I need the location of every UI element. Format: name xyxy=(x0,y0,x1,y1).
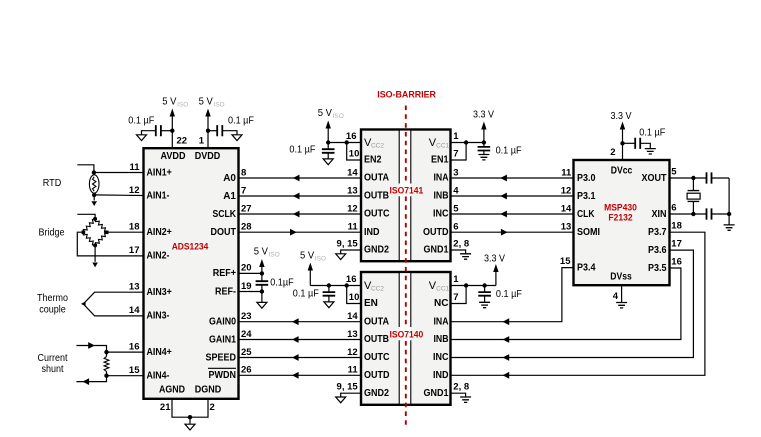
svg-text:PWDN: PWDN xyxy=(209,370,237,381)
wire P3.6 to ISO7140 INC xyxy=(451,250,694,357)
svg-text:OUTA: OUTA xyxy=(364,173,389,184)
svg-text:5 V: 5 V xyxy=(199,96,213,108)
svg-text:ADS1234: ADS1234 xyxy=(172,242,209,252)
svg-text:6: 6 xyxy=(453,222,458,233)
wire SPEED/OUTC xyxy=(239,357,362,359)
svg-text:14: 14 xyxy=(347,311,358,322)
svg-text:GAIN0: GAIN0 xyxy=(209,317,236,328)
svg-text:2, 8: 2, 8 xyxy=(453,382,469,393)
svg-text:5 V: 5 V xyxy=(318,107,332,119)
wire A1/OUTB xyxy=(239,195,362,197)
svg-text:13: 13 xyxy=(561,222,572,233)
svg-text:NC: NC xyxy=(434,298,448,309)
svg-text:ISO7140: ISO7140 xyxy=(390,329,424,339)
wire shunt bottom xyxy=(76,372,106,382)
svg-text:14: 14 xyxy=(129,305,140,316)
svg-text:16: 16 xyxy=(671,257,682,268)
wire P3.4 to ISO7140 INA xyxy=(451,268,574,322)
svg-text:OUTD: OUTD xyxy=(364,370,390,381)
svg-text:7: 7 xyxy=(453,148,458,159)
svg-text:16: 16 xyxy=(346,274,357,285)
arrow toward ISO7140 (INB) xyxy=(503,336,510,343)
svg-text:P3.6: P3.6 xyxy=(648,245,667,256)
svg-text:16: 16 xyxy=(346,131,357,142)
svg-text:INA: INA xyxy=(434,173,449,184)
svg-text:5: 5 xyxy=(453,203,459,214)
junction VCC1/NC node xyxy=(464,283,468,287)
svg-text:0.1 µF: 0.1 µF xyxy=(496,289,522,300)
svg-text:7: 7 xyxy=(241,185,246,196)
svg-text:7: 7 xyxy=(453,292,458,303)
RTD sensor element xyxy=(89,175,99,193)
wire P3.7 to ISO7140 IND xyxy=(451,232,705,375)
wire VCC2 pin 16 xyxy=(328,142,361,144)
svg-text:OUTC: OUTC xyxy=(364,209,390,220)
wire DVDD pin 1 xyxy=(207,131,209,149)
svg-text:AIN1+: AIN1+ xyxy=(147,167,172,178)
wire VCC2 pin 16 (ISO7140) xyxy=(310,285,361,287)
isolation barrier channel of ISO7140 xyxy=(400,273,410,403)
svg-text:shunt: shunt xyxy=(42,364,64,375)
svg-text:5: 5 xyxy=(671,167,677,178)
svg-text:1: 1 xyxy=(453,131,459,142)
svg-text:GND2: GND2 xyxy=(364,388,389,399)
capacitor 0.1uF at ISO7140 VCC1 xyxy=(484,286,486,293)
wire AGND-DGND to ground xyxy=(172,399,208,418)
power 3.3V arrow (MSP430) xyxy=(620,122,625,130)
svg-text:GND1: GND1 xyxy=(424,245,449,256)
svg-text:ISO: ISO xyxy=(315,255,326,262)
junction VCC2/EN2 node xyxy=(345,140,349,144)
arrow toward ISO7141 (INA/P3.0) xyxy=(500,175,507,182)
wire XIN cap to rail xyxy=(712,213,730,215)
svg-text:5 V: 5 V xyxy=(300,250,314,262)
isolation barrier inner lines of ISO7141 xyxy=(398,131,400,184)
wire AIN4- xyxy=(107,375,144,377)
svg-text:9, 15: 9, 15 xyxy=(337,382,359,393)
svg-text:10: 10 xyxy=(349,148,360,159)
svg-text:P3.4: P3.4 xyxy=(577,262,596,273)
isolation barrier inner lines of ISO7140 xyxy=(398,273,400,327)
wire INB/P3.1 xyxy=(451,195,574,197)
svg-text:11: 11 xyxy=(348,365,359,376)
junction RTD top / AIN1+ xyxy=(92,170,96,174)
svg-text:CC2: CC2 xyxy=(371,286,384,293)
wire GAIN0/OUTA xyxy=(239,321,362,323)
ground (IEC) MSP430 DVss xyxy=(616,303,627,308)
arrow toward ISO7141 (DOUT/IND) xyxy=(290,229,297,236)
junction AVDD node xyxy=(170,129,174,133)
svg-text:25: 25 xyxy=(241,347,252,358)
wire GND1 pins 2,8 (ISO7140) xyxy=(451,393,466,397)
ground (iso) at DVDD cap xyxy=(232,135,242,141)
svg-text:DVDD: DVDD xyxy=(195,151,221,162)
capacitor crystal load (XIN) xyxy=(707,208,712,219)
svg-text:12: 12 xyxy=(561,185,572,196)
wire XOUT cap to rail xyxy=(712,177,730,179)
svg-text:15: 15 xyxy=(560,256,571,267)
svg-text:AIN2+: AIN2+ xyxy=(147,227,172,238)
ground (iso) at AVDD cap xyxy=(137,135,147,141)
capacitor 0.1uF at MSP430 DVcc xyxy=(623,142,636,144)
power 5V_ISO arrow (ISO7141 VCC2) xyxy=(326,121,331,129)
svg-text:EN1: EN1 xyxy=(431,155,449,166)
wire REF+ xyxy=(239,272,262,274)
svg-text:AIN4+: AIN4+ xyxy=(147,347,172,358)
arrow toward ADS1234 (SCLK/OUTC) xyxy=(293,211,300,218)
wire P3.5 to ISO7140 INB xyxy=(451,268,681,340)
wire GND2 pins 9,15 (ISO7140) xyxy=(341,393,361,397)
svg-text:INB: INB xyxy=(434,191,449,202)
svg-text:EN2: EN2 xyxy=(364,155,382,166)
wire INA/P3.0 xyxy=(451,177,574,179)
arrow toward ADS1234 (A1/OUTB) xyxy=(293,193,300,200)
crystal Y1 xyxy=(692,178,694,191)
svg-text:A0: A0 xyxy=(223,173,236,184)
svg-text:DOUT: DOUT xyxy=(211,227,237,238)
arrow toward ISO7140 (IND) xyxy=(503,372,510,379)
wire AIN1- xyxy=(94,194,143,197)
svg-text:1: 1 xyxy=(199,136,205,147)
svg-text:SOMI: SOMI xyxy=(577,227,600,238)
wire VCC1 pin 1 (ISO7140) xyxy=(451,285,496,287)
ground (IEC) ISO7140 GND1 xyxy=(460,397,471,402)
junction rail/XIN xyxy=(727,212,731,216)
arrow thermocouple junction xyxy=(81,301,86,306)
svg-text:OUTB: OUTB xyxy=(364,191,389,202)
svg-text:0.1 µF: 0.1 µF xyxy=(289,145,315,156)
svg-text:15: 15 xyxy=(129,365,140,376)
svg-text:ISO: ISO xyxy=(269,251,280,258)
wire AIN4+ xyxy=(107,351,144,353)
svg-text:3.3 V: 3.3 V xyxy=(473,110,494,121)
svg-text:ISO: ISO xyxy=(213,101,224,108)
svg-text:17: 17 xyxy=(671,239,682,250)
svg-text:13: 13 xyxy=(347,185,358,196)
svg-text:4: 4 xyxy=(613,291,619,302)
svg-text:11: 11 xyxy=(129,162,140,173)
capacitor 0.1uF at ISO7140 VCC2 xyxy=(328,286,330,293)
svg-text:5 V: 5 V xyxy=(162,96,176,108)
svg-text:IND: IND xyxy=(364,227,380,238)
capacitor crystal load (XOUT) xyxy=(707,172,712,183)
svg-text:21: 21 xyxy=(160,402,171,413)
ground (IEC) at DVcc cap xyxy=(645,149,656,154)
arrow bridge return current xyxy=(92,263,98,268)
svg-text:INC: INC xyxy=(433,209,449,220)
svg-text:AGND: AGND xyxy=(159,385,185,396)
svg-text:AIN4-: AIN4- xyxy=(147,370,170,381)
junction bridge top vertex xyxy=(93,217,97,221)
power 3.3V arrow (ISO7141) xyxy=(481,122,486,130)
power 5V_ISO arrow (AVDD) xyxy=(170,109,175,117)
svg-text:14: 14 xyxy=(561,203,572,214)
arrow shunt current out xyxy=(83,378,90,385)
svg-text:3.3 V: 3.3 V xyxy=(484,254,505,265)
svg-text:19: 19 xyxy=(241,281,252,292)
svg-text:IND: IND xyxy=(433,370,449,381)
wire XIN xyxy=(670,213,707,215)
svg-text:26: 26 xyxy=(241,365,252,376)
wire AIN2- xyxy=(77,232,143,256)
svg-text:DVcc: DVcc xyxy=(611,166,633,177)
svg-text:Bridge: Bridge xyxy=(39,228,65,239)
svg-text:13: 13 xyxy=(347,329,358,340)
svg-text:GAIN1: GAIN1 xyxy=(209,334,236,345)
junction bridge bottom vertex xyxy=(93,243,97,247)
arrow toward ADS1234 (GAIN0/OUTA) xyxy=(292,318,299,325)
junction shunt bottom / AIN4- xyxy=(104,374,108,378)
wire OUTD/SOMI xyxy=(451,231,574,233)
svg-text:CC1: CC1 xyxy=(436,286,449,293)
wire VCC1 pin 1 xyxy=(451,142,484,144)
arrow shunt current in xyxy=(88,342,95,349)
isolator ISO7141 body xyxy=(361,130,451,262)
svg-text:10: 10 xyxy=(349,292,360,303)
wire DOUT/IND xyxy=(239,231,362,233)
svg-text:28: 28 xyxy=(241,222,252,233)
junction VCC1/EN1 node xyxy=(464,140,468,144)
wire crystal rail to ground xyxy=(728,178,730,225)
wire SCLK/OUTC xyxy=(239,213,362,215)
wire RTD excitation xyxy=(77,165,94,173)
isolation barrier channel of ISO7141 xyxy=(400,131,410,260)
svg-text:2, 8: 2, 8 xyxy=(453,238,469,249)
arrow toward ISO7140 (INA) xyxy=(503,318,510,325)
svg-text:A1: A1 xyxy=(223,191,236,202)
wire RTD return xyxy=(93,195,95,201)
svg-text:F2132: F2132 xyxy=(608,213,632,223)
wire DVcc pin 2 xyxy=(622,143,624,160)
arrow RTD return current xyxy=(91,201,97,206)
bridge sensor (4 resistor arms) xyxy=(83,219,95,232)
junction XOUT/crystal xyxy=(691,176,695,180)
svg-text:20: 20 xyxy=(241,263,252,274)
arrow toward ADS1234 (GAIN1/OUTB) xyxy=(292,336,299,343)
svg-text:ISO-BARRIER: ISO-BARRIER xyxy=(377,90,436,101)
ground (iso) ISO7140 GND2 xyxy=(336,397,346,403)
ground (IEC) at ISO7140 VCC1 cap xyxy=(479,302,490,307)
svg-text:14: 14 xyxy=(347,167,358,178)
svg-text:AIN2-: AIN2- xyxy=(147,251,170,262)
svg-text:2: 2 xyxy=(210,402,215,413)
arrow toward ISO7141 (INB/P3.1) xyxy=(500,193,507,200)
wire AIN2+ xyxy=(107,231,143,233)
ground (iso) below REF- xyxy=(257,302,267,308)
ground (IEC) ISO7141 GND1 xyxy=(460,254,471,259)
svg-text:6: 6 xyxy=(671,203,676,214)
svg-text:CC2: CC2 xyxy=(371,143,384,150)
resistor shunt xyxy=(104,357,109,372)
svg-text:AIN3-: AIN3- xyxy=(147,311,170,322)
svg-text:0.1µF: 0.1µF xyxy=(270,277,294,288)
power 5V_ISO arrow (DVDD) xyxy=(205,109,210,117)
svg-text:XIN: XIN xyxy=(652,209,667,220)
svg-text:9, 15: 9, 15 xyxy=(337,238,359,249)
wire AVDD pin 22 xyxy=(171,131,173,149)
svg-text:AIN3+: AIN3+ xyxy=(147,287,172,298)
svg-text:GND1: GND1 xyxy=(424,388,449,399)
wire INC/CLK xyxy=(451,213,574,215)
arrow toward ADS1234 (SPEED/OUTC) xyxy=(292,354,299,361)
junction RTD bottom / AIN1- xyxy=(92,193,96,197)
wire bridge return xyxy=(94,245,96,261)
svg-text:23: 23 xyxy=(241,311,252,322)
capacitor 0.1uF across REF+/REF- xyxy=(261,273,263,281)
iso barrier dashed line xyxy=(405,106,407,184)
svg-text:Current: Current xyxy=(38,353,68,364)
svg-text:P3.5: P3.5 xyxy=(648,263,667,274)
svg-text:AIN1-: AIN1- xyxy=(147,190,170,201)
wire EN pin 10 tied to VCC2 (ISO7140) xyxy=(347,286,361,304)
arrow toward MSP430 (OUTD/SOMI) xyxy=(501,229,508,236)
wire A0/OUTA xyxy=(239,177,362,179)
wire EN1 pin 7 tied to VCC1 xyxy=(451,143,467,161)
junction VCC1/cap node xyxy=(482,140,486,144)
svg-text:SPEED: SPEED xyxy=(206,352,237,363)
wire GND1 pins 2,8 xyxy=(451,250,466,254)
junction shunt top / AIN4+ xyxy=(104,350,108,354)
ground (iso) below ADS1234 xyxy=(185,424,195,430)
wire REF- xyxy=(239,291,262,293)
wire AIN1+ xyxy=(94,172,144,174)
svg-text:ISO: ISO xyxy=(333,113,344,120)
power 5V_ISO arrow (REF+) xyxy=(259,259,264,267)
svg-text:Thermo: Thermo xyxy=(37,293,68,304)
junction REF- node xyxy=(260,289,264,293)
svg-text:13: 13 xyxy=(129,282,140,293)
svg-text:INC: INC xyxy=(433,352,449,363)
svg-text:OUTC: OUTC xyxy=(364,352,390,363)
svg-text:11: 11 xyxy=(348,222,359,233)
power 3.3V arrow (ISO7140) xyxy=(493,264,498,272)
svg-text:DVss: DVss xyxy=(610,271,632,282)
svg-text:0.1 µF: 0.1 µF xyxy=(293,289,319,300)
svg-text:18: 18 xyxy=(671,221,682,232)
svg-text:3: 3 xyxy=(453,167,458,178)
svg-text:OUTB: OUTB xyxy=(364,334,389,345)
svg-text:DGND: DGND xyxy=(195,385,222,396)
svg-text:ISO: ISO xyxy=(177,101,188,108)
junction VCC2/EN node (ISO7140) xyxy=(345,283,349,287)
svg-text:CC1: CC1 xyxy=(436,143,449,150)
overline on PWDN xyxy=(208,367,236,369)
svg-text:REF-: REF- xyxy=(215,286,236,297)
wire EN2 pin 10 tied to VCC2 xyxy=(347,143,361,161)
junction AGND/DGND node xyxy=(188,415,192,419)
arrow toward ADS1234 (PWDN/OUTD) xyxy=(292,372,299,379)
power 5V_ISO arrow (ISO7140 VCC2) xyxy=(308,263,313,271)
wire NC pin 7 tied to VCC1 xyxy=(451,286,467,304)
svg-text:18: 18 xyxy=(129,222,140,233)
svg-text:MSP430: MSP430 xyxy=(604,203,637,213)
svg-text:0.1 µF: 0.1 µF xyxy=(228,116,254,127)
svg-text:22: 22 xyxy=(177,136,188,147)
arrow toward ADS1234 (A0/OUTA) xyxy=(293,175,300,182)
junction REF+ node xyxy=(260,271,264,275)
svg-text:0.1 µF: 0.1 µF xyxy=(496,146,522,157)
arrow toward ISO7141 (INC/CLK) xyxy=(500,211,507,218)
wire GND2 pins 9,15 xyxy=(341,250,361,254)
svg-text:RTD: RTD xyxy=(43,178,62,189)
svg-text:couple: couple xyxy=(39,305,66,316)
svg-text:16: 16 xyxy=(129,341,140,352)
svg-text:17: 17 xyxy=(129,245,140,256)
junction DVDD node xyxy=(206,129,210,133)
ground (iso) ISO7141 GND2 xyxy=(336,254,346,260)
arrow square at bridge left node xyxy=(82,231,86,235)
svg-text:12: 12 xyxy=(347,347,358,358)
microcontroller U4 MSP430F2132 body xyxy=(574,160,670,285)
junction XIN/crystal xyxy=(691,212,695,216)
op-amp U1 ADS1234 body xyxy=(144,148,239,399)
ground (IEC) crystal caps xyxy=(724,225,735,230)
svg-text:1: 1 xyxy=(453,274,459,285)
svg-text:OUTA: OUTA xyxy=(364,316,389,327)
svg-text:5 V: 5 V xyxy=(254,246,268,258)
junction VCC2/cap node xyxy=(326,140,330,144)
svg-text:4: 4 xyxy=(453,185,459,196)
svg-text:24: 24 xyxy=(241,329,252,340)
svg-text:CLK: CLK xyxy=(577,209,595,220)
svg-text:P3.7: P3.7 xyxy=(648,227,667,238)
ground (IEC) at ISO7141 VCC1 cap xyxy=(478,155,489,160)
svg-text:12: 12 xyxy=(347,203,358,214)
svg-text:3.3 V: 3.3 V xyxy=(611,111,632,122)
arrow square at bridge right node xyxy=(105,231,109,235)
svg-text:ISO7141: ISO7141 xyxy=(390,185,424,195)
svg-text:AVDD: AVDD xyxy=(161,151,186,162)
svg-text:8: 8 xyxy=(241,167,246,178)
svg-text:2: 2 xyxy=(610,147,615,158)
wire shunt top xyxy=(76,346,106,357)
junction VCC1/cap node (ISO7140) xyxy=(482,283,486,287)
wire DVss pin 4 xyxy=(621,285,623,302)
capacitor 0.1uF at AVDD xyxy=(161,130,172,132)
junction VCC2/cap node (ISO7140) xyxy=(327,283,331,287)
svg-text:OUTD: OUTD xyxy=(423,227,449,238)
wire XOUT xyxy=(670,177,707,179)
svg-text:SCLK: SCLK xyxy=(213,209,237,220)
capacitor 0.1uF at DVDD xyxy=(208,130,217,132)
ground (iso) at ISO7141 VCC2 cap xyxy=(323,159,333,165)
svg-text:XOUT: XOUT xyxy=(642,173,667,184)
junction DVcc node xyxy=(620,141,624,145)
svg-text:REF+: REF+ xyxy=(213,268,236,279)
arrow toward ISO7140 (INC) xyxy=(503,354,510,361)
wire PWDN/OUTD xyxy=(239,374,362,376)
svg-text:0.1 µF: 0.1 µF xyxy=(639,127,665,138)
svg-text:INB: INB xyxy=(434,334,449,345)
svg-text:11: 11 xyxy=(561,167,572,178)
ground (iso) at ISO7140 VCC2 cap xyxy=(324,302,334,308)
wire bridge excitation xyxy=(77,214,95,219)
svg-text:27: 27 xyxy=(241,203,252,214)
svg-text:P3.1: P3.1 xyxy=(577,191,596,202)
wire thermocouple AIN3+/AIN3- xyxy=(83,292,143,316)
svg-text:12: 12 xyxy=(129,185,140,196)
svg-text:EN: EN xyxy=(364,298,378,309)
svg-text:GND2: GND2 xyxy=(364,245,389,256)
svg-text:INA: INA xyxy=(434,316,449,327)
wire GAIN1/OUTB xyxy=(239,339,362,341)
svg-text:P3.0: P3.0 xyxy=(577,173,596,184)
capacitor 0.1uF at ISO7141 VCC1 xyxy=(483,143,485,147)
svg-text:0.1 µF: 0.1 µF xyxy=(128,116,154,127)
capacitor 0.1uF at ISO7141 VCC2 xyxy=(327,143,329,150)
isolator ISO7140 body xyxy=(361,272,451,405)
